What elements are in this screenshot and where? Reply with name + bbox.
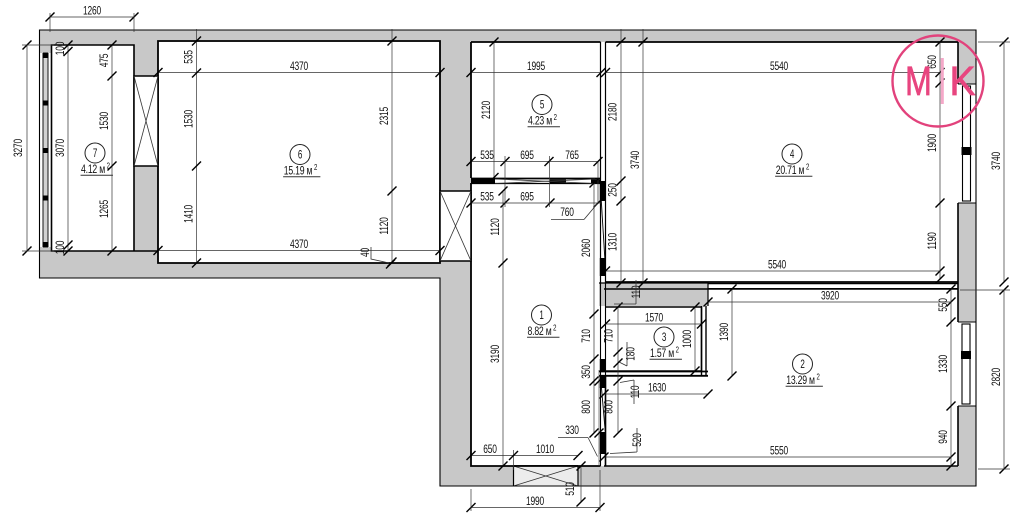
svg-text:2: 2 xyxy=(676,347,679,355)
dimensions 2315 1120 room6 right xyxy=(378,29,397,267)
svg-text:110: 110 xyxy=(628,385,642,398)
svg-text:2: 2 xyxy=(817,374,820,382)
svg-text:1010: 1010 xyxy=(536,442,554,456)
svg-text:2: 2 xyxy=(107,163,110,171)
dimensions 2180 250 1310 room4 left xyxy=(606,29,626,288)
svg-text:2: 2 xyxy=(800,359,805,372)
svg-text:180: 180 xyxy=(624,347,638,361)
svg-text:M: M xyxy=(905,58,932,104)
svg-text:1120: 1120 xyxy=(378,217,392,235)
door jamb room4 lower xyxy=(600,258,606,276)
svg-text:800: 800 xyxy=(580,400,594,414)
wall between room7 and room6 upper part xyxy=(134,42,158,76)
svg-text:710: 710 xyxy=(602,329,616,343)
room3 right wall double line xyxy=(702,306,707,376)
svg-text:535: 535 xyxy=(480,148,494,162)
door jamb room2 wall upper-a xyxy=(600,359,606,372)
MK logo circle xyxy=(893,36,984,127)
svg-text:760: 760 xyxy=(560,205,574,219)
svg-text:4.23 м: 4.23 м xyxy=(528,114,552,128)
svg-text:1990: 1990 xyxy=(526,494,544,508)
corridor bottom wall xyxy=(440,466,604,486)
svg-text:250: 250 xyxy=(606,183,620,197)
flat X hatch over room5 wall opening xyxy=(495,179,595,184)
door jamb room2 lower xyxy=(600,432,606,454)
svg-text:100: 100 xyxy=(54,41,68,55)
svg-text:3190: 3190 xyxy=(489,345,503,363)
label 110 room3 top wall leader xyxy=(614,280,644,304)
right outer wall segment above room4 window xyxy=(958,42,976,84)
room3 bottom wall double line xyxy=(599,372,708,376)
dimension 3920 top of room2 xyxy=(704,289,956,307)
svg-text:8.82 м: 8.82 м xyxy=(528,325,552,339)
svg-text:6: 6 xyxy=(298,149,303,162)
right outer wall between windows xyxy=(958,203,976,322)
room2 bottom wall xyxy=(604,466,976,486)
svg-text:1530: 1530 xyxy=(98,112,112,130)
svg-text:1260: 1260 xyxy=(83,4,101,18)
svg-text:550: 550 xyxy=(937,298,951,312)
dimensions 100 3070 100 left window xyxy=(54,41,73,256)
svg-text:1330: 1330 xyxy=(937,355,951,373)
extension line right outer top xyxy=(978,41,1010,43)
svg-text:3740: 3740 xyxy=(629,151,643,169)
dimension 1990 below corridor xyxy=(467,494,605,512)
dimension 1630 below room3 xyxy=(600,381,713,399)
room7 window mullion mark 2 xyxy=(43,101,49,106)
svg-text:765: 765 xyxy=(565,148,579,162)
dimensions 710 800 room3 left xyxy=(602,303,623,438)
room5 interior outline xyxy=(471,42,601,178)
right wall inner face lines xyxy=(957,42,959,466)
room6 interior outline xyxy=(158,41,440,263)
wall left of corridor lower part xyxy=(440,261,471,486)
door leaf room2 xyxy=(602,388,606,431)
svg-text:2820: 2820 xyxy=(990,368,1004,386)
room2 window mullion mark xyxy=(961,351,971,359)
svg-text:1190: 1190 xyxy=(926,232,940,250)
svg-text:1310: 1310 xyxy=(606,233,620,251)
room 4 label xyxy=(775,144,812,177)
svg-text:940: 940 xyxy=(937,430,951,444)
entry door X-box in corridor bottom wall xyxy=(514,466,579,486)
svg-text:1390: 1390 xyxy=(718,323,732,341)
svg-text:2315: 2315 xyxy=(378,107,392,125)
corridor interior outline xyxy=(471,183,601,466)
svg-text:1570: 1570 xyxy=(645,311,663,325)
left wall bottom corner block xyxy=(40,247,52,278)
svg-text:K: K xyxy=(950,59,976,104)
dimension 4370 bottom of room6 xyxy=(154,237,445,255)
svg-text:3920: 3920 xyxy=(821,289,839,303)
dimension 1995 top of room5 xyxy=(467,59,606,77)
svg-text:5540: 5540 xyxy=(770,59,788,73)
room5 bottom wall stub mid xyxy=(550,180,566,185)
left wall top corner block xyxy=(40,30,52,53)
room3 top wall outline xyxy=(599,283,708,306)
svg-text:350: 350 xyxy=(580,365,594,379)
label 760 door opening with leader xyxy=(551,204,598,220)
room5 bottom wall lines xyxy=(471,179,601,184)
label 40 with leader xyxy=(358,247,395,269)
dimension 1260 top of room7 xyxy=(46,4,139,22)
room4 interior outline xyxy=(606,42,959,282)
outer top wall xyxy=(40,30,977,42)
svg-text:5540: 5540 xyxy=(768,258,786,272)
room3 interior outline xyxy=(606,307,702,371)
svg-text:695: 695 xyxy=(520,190,534,204)
dimension 5550 bottom of room2 xyxy=(600,444,956,462)
svg-text:40: 40 xyxy=(358,248,372,257)
dimension 510 entry xyxy=(563,462,585,507)
svg-text:5550: 5550 xyxy=(770,444,788,458)
wall between room7 and room6 lower part xyxy=(134,166,158,251)
left wall window band xyxy=(43,53,49,247)
svg-text:3070: 3070 xyxy=(54,139,68,157)
svg-text:800: 800 xyxy=(602,400,616,414)
dimension 3740 room4 xyxy=(629,29,648,288)
room2 window recess gap edges xyxy=(958,322,976,406)
dimensions 1120 3190 corridor left xyxy=(489,187,508,471)
room7 window glazing lines xyxy=(43,53,48,247)
dimension 2820 right outer xyxy=(990,286,1009,474)
svg-text:2: 2 xyxy=(554,114,557,122)
svg-text:1630: 1630 xyxy=(648,381,666,395)
dimension 3740 right outer xyxy=(990,38,1009,287)
dimensions 535 695 765 above room5 wall xyxy=(467,148,603,166)
label 330 with leader xyxy=(558,423,598,456)
dimensions 475 1530 1265 room7 xyxy=(98,41,117,256)
svg-text:15.19 м: 15.19 м xyxy=(284,164,313,178)
top wall extra thickness over room 7 xyxy=(40,42,135,46)
room7 window mullion mark 5 xyxy=(43,242,49,247)
svg-text:100: 100 xyxy=(54,240,68,254)
extension lines 2820 xyxy=(960,290,1010,469)
room4 window mullion mark xyxy=(962,147,972,155)
label 110 room3 bottom wall leader xyxy=(620,380,643,404)
room7 window mullion mark 4 xyxy=(43,196,49,201)
dimension 5540 top of room4 xyxy=(601,59,945,77)
room 1 label xyxy=(527,305,559,338)
label 180 with leader xyxy=(619,342,638,366)
svg-text:1410: 1410 xyxy=(182,205,196,223)
svg-text:2060: 2060 xyxy=(580,239,594,257)
room 3 label xyxy=(650,327,682,360)
wall room5-room4 thin double line xyxy=(601,42,606,283)
wall between room6 and room5/corridor xyxy=(440,41,471,191)
svg-text:2: 2 xyxy=(553,325,556,333)
dimension 1390 right of room3 xyxy=(718,285,737,381)
room5 bottom wall stub left xyxy=(471,179,495,185)
bottom wall under room6 xyxy=(158,263,471,278)
room7 window mullion mark 1 xyxy=(43,53,49,58)
closet X-box in wall between room6 and corridor xyxy=(440,191,471,261)
room5 bottom wall stub right xyxy=(591,180,601,185)
extension lines 3270 xyxy=(22,45,54,251)
extension lines between 535-695 dim rows xyxy=(505,156,598,207)
svg-text:110: 110 xyxy=(629,285,643,298)
svg-text:4.12 м: 4.12 м xyxy=(81,163,105,177)
building outer boundary xyxy=(40,30,977,486)
dimensions 2060 710 350 800 corridor right xyxy=(580,179,599,438)
room2 interior outline xyxy=(604,289,958,466)
svg-text:1120: 1120 xyxy=(489,218,503,236)
room4 window recess gap edges xyxy=(958,84,976,203)
svg-text:4370: 4370 xyxy=(290,59,308,73)
svg-text:1530: 1530 xyxy=(182,110,196,128)
svg-text:535: 535 xyxy=(182,50,196,64)
corridor wall lower stub xyxy=(601,283,606,466)
dimensions 535 1530 1410 room6 left xyxy=(182,29,201,268)
dimensions 550 1330 940 room2 right xyxy=(937,285,956,471)
room4 window glazing xyxy=(963,86,971,201)
svg-text:475: 475 xyxy=(98,53,112,67)
room 7 label xyxy=(81,143,113,176)
dimension 1570 in room3 xyxy=(601,311,706,329)
dimensions 650 1010 corridor bottom xyxy=(467,442,583,460)
room 5 label xyxy=(528,95,560,128)
svg-text:695: 695 xyxy=(520,148,534,162)
svg-text:650: 650 xyxy=(483,442,497,456)
door leaf room4 xyxy=(601,201,605,258)
right outer wall below room2 window xyxy=(958,406,976,486)
bottom wall under room7 xyxy=(40,251,159,278)
svg-text:7: 7 xyxy=(93,148,98,161)
svg-text:1900: 1900 xyxy=(926,134,940,152)
dimension 5540 bottom of room4 xyxy=(601,258,945,276)
svg-text:1000: 1000 xyxy=(681,330,695,348)
svg-text:330: 330 xyxy=(565,423,579,437)
extension lines for 1990 xyxy=(471,470,600,511)
svg-text:3740: 3740 xyxy=(990,152,1004,170)
svg-text:1995: 1995 xyxy=(527,59,545,73)
svg-text:3: 3 xyxy=(662,332,667,345)
svg-text:1265: 1265 xyxy=(98,200,112,218)
svg-text:2: 2 xyxy=(806,164,809,172)
dimension 4370 top of room6 xyxy=(154,59,445,77)
label 520 with leader xyxy=(610,428,645,454)
closet X-box in wall between rooms 7 and 6 xyxy=(134,76,158,166)
svg-text:2120: 2120 xyxy=(480,101,494,119)
room2 top thin wall double line xyxy=(708,284,958,289)
svg-text:3270: 3270 xyxy=(11,139,25,157)
room7 window mullion mark 3 xyxy=(43,148,49,153)
svg-text:2: 2 xyxy=(314,164,317,172)
dimension 3270 left outer xyxy=(11,41,31,256)
svg-text:2180: 2180 xyxy=(606,103,620,121)
dimension 1000 room3 right xyxy=(681,303,700,376)
svg-text:13.29 м: 13.29 м xyxy=(786,374,815,388)
svg-text:535: 535 xyxy=(480,190,494,204)
svg-text:1.57 м: 1.57 м xyxy=(650,347,674,361)
extension lines for 1260 xyxy=(50,13,134,32)
room3 top thick wall xyxy=(599,283,708,306)
dimension 2120 room5 xyxy=(480,38,499,183)
room7 interior outline xyxy=(52,45,159,251)
svg-text:1: 1 xyxy=(539,310,544,323)
extension line right of corridor wall xyxy=(595,370,604,466)
room 2 label xyxy=(786,354,823,387)
room2 window glazing xyxy=(962,324,970,404)
svg-text:4: 4 xyxy=(790,149,795,162)
svg-text:520: 520 xyxy=(630,433,644,447)
svg-text:20.71 м: 20.71 м xyxy=(776,164,805,178)
MK logo divider bar xyxy=(941,58,944,104)
svg-text:710: 710 xyxy=(580,329,594,343)
svg-text:510: 510 xyxy=(563,482,577,496)
dimensions 535 695 below room5 wall xyxy=(467,190,603,208)
room 6 label xyxy=(283,145,320,178)
door jamb room2 wall upper-b xyxy=(600,376,606,388)
dimensions 650 1900 1190 room4 right xyxy=(926,38,945,284)
svg-text:5: 5 xyxy=(540,99,545,112)
svg-text:4370: 4370 xyxy=(290,237,308,251)
extension line at 513.5 corridor bottom xyxy=(513,450,515,470)
door jamb room4 upper xyxy=(600,181,606,201)
